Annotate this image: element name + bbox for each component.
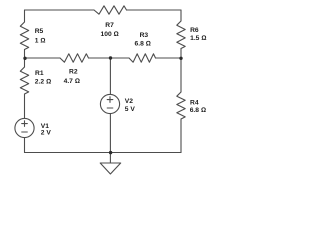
- wire node A to R1 top: [24, 58, 26, 67]
- svg-text:6.8 Ω: 6.8 Ω: [190, 107, 206, 114]
- svg-text:100 Ω: 100 Ω: [101, 31, 119, 38]
- wire V1 bottom to bottom rail: [24, 138, 26, 153]
- svg-text:2 V: 2 V: [41, 130, 52, 137]
- svg-text:R1: R1: [35, 70, 44, 77]
- svg-text:1.5 Ω: 1.5 Ω: [190, 35, 206, 42]
- wire R3 to node C: [156, 57, 182, 59]
- node C junction dot: [179, 57, 182, 60]
- voltage source V1: [15, 118, 34, 137]
- svg-text:4.7 Ω: 4.7 Ω: [64, 78, 80, 85]
- wire top rail left of R7: [25, 9, 95, 11]
- svg-text:5 V: 5 V: [125, 106, 136, 113]
- node B junction dot: [109, 56, 112, 59]
- ground: [109, 153, 111, 164]
- wire bottom rail: [25, 152, 182, 154]
- svg-text:2.2 Ω: 2.2 Ω: [35, 78, 51, 85]
- resistor R7: [94, 6, 127, 14]
- resistor R2: [60, 54, 89, 62]
- wire top rail right of R7: [127, 9, 182, 11]
- voltage source V2: [100, 94, 119, 113]
- svg-text:R6: R6: [190, 27, 199, 34]
- resistor R4: [177, 92, 185, 119]
- svg-text:R2: R2: [69, 69, 78, 76]
- node D junction dot (bottom): [109, 151, 112, 154]
- wire right column top lead: [180, 10, 182, 21]
- wire left column top lead: [24, 10, 26, 22]
- wire R2 to node B: [89, 57, 111, 59]
- resistor R6: [177, 21, 185, 49]
- node A junction dot: [23, 57, 26, 60]
- wire node B to V2 top: [109, 58, 111, 95]
- wire R1 bottom to V1 top: [24, 94, 26, 119]
- wire node C to R4 top: [180, 58, 182, 92]
- wire V2 bottom to bottom rail: [109, 114, 111, 153]
- resistor R1: [20, 67, 28, 94]
- wire node B to R3: [111, 57, 130, 59]
- svg-text:1 Ω: 1 Ω: [35, 37, 46, 44]
- svg-text:V2: V2: [125, 98, 133, 105]
- svg-text:R4: R4: [190, 100, 199, 107]
- svg-text:R3: R3: [140, 32, 149, 39]
- wire R5 bottom to node A: [24, 50, 26, 59]
- wire R6 bottom to node C: [180, 49, 182, 59]
- resistor R5: [20, 22, 28, 50]
- resistor R3: [129, 54, 156, 62]
- svg-text:R7: R7: [105, 22, 114, 29]
- svg-text:6.8 Ω: 6.8 Ω: [135, 40, 151, 47]
- wire middle rail node A to R2: [25, 57, 61, 59]
- svg-text:R5: R5: [35, 28, 44, 35]
- wire R4 bottom to bottom rail: [180, 119, 182, 153]
